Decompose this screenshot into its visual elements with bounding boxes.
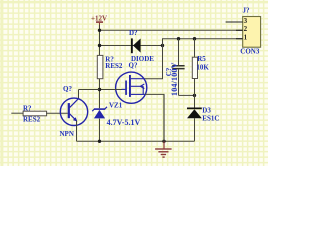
resistor R5: [192, 39, 209, 108]
capacitor C? 104/100V: [165, 39, 195, 96]
power port +12V: [91, 15, 107, 26]
svg-text:RES2: RES2: [105, 62, 123, 70]
svg-text:10K: 10K: [196, 64, 209, 72]
wire emitter riser: [76, 121, 78, 141]
wire gate node column: [99, 79, 101, 109]
svg-text:CON3: CON3: [240, 48, 260, 56]
MOSFET Q?: [116, 62, 147, 104]
wire drain horizontal: [143, 78, 163, 80]
svg-text:2: 2: [244, 25, 248, 33]
wire base input: [11, 112, 23, 114]
svg-text:3: 3: [244, 17, 248, 25]
svg-text:VZ1: VZ1: [109, 102, 123, 110]
svg-text:104/100V: 104/100V: [170, 62, 179, 96]
wire drain riser: [162, 39, 164, 79]
wire gate: [100, 89, 123, 91]
diode D3 ES1C: [187, 107, 219, 142]
diode D? DIODE: [129, 29, 154, 63]
node junction R5 top: [193, 37, 196, 40]
resistor R? RES2 (base): [23, 104, 47, 123]
svg-text:D?: D?: [129, 29, 138, 37]
resistor R? RES2 (gate pull-up): [97, 55, 123, 78]
node junction diode rail left: [98, 44, 101, 47]
wire base to transistor: [46, 112, 68, 114]
wire collector riser: [78, 90, 80, 99]
wire bottom rail: [77, 140, 195, 142]
node junction at +12V / top rail: [98, 29, 101, 32]
wire top rail (pin 2 net): [100, 29, 243, 31]
wire diode rail: [100, 45, 163, 47]
svg-text:J?: J?: [243, 7, 251, 15]
node junction ground/bottom rail: [162, 140, 165, 143]
svg-text:1: 1: [244, 34, 248, 42]
wire +12V column: [99, 25, 101, 56]
ground: [155, 141, 172, 157]
svg-text:D3: D3: [202, 107, 211, 115]
node junction zener/bottom rail: [98, 140, 101, 143]
connector J? CON3: [226, 7, 261, 56]
zener diode VZ1 4.7V-5.1V: [92, 102, 140, 128]
svg-text:Q?: Q?: [129, 62, 138, 70]
wire collector branch horizontal: [79, 89, 100, 91]
node junction cap top: [177, 37, 180, 40]
node junction diode rail right: [161, 44, 164, 47]
svg-text:R5: R5: [197, 55, 206, 63]
node junction gate: [98, 88, 101, 91]
svg-text:NPN: NPN: [60, 130, 74, 138]
wire zener to bottom rail: [99, 119, 101, 142]
wire source riser: [163, 94, 165, 141]
svg-text:ES1C: ES1C: [202, 114, 219, 122]
node junction cap bottom / R5 bottom: [193, 94, 196, 97]
svg-text:4.7V-5.1V: 4.7V-5.1V: [107, 118, 141, 127]
svg-text:RES2: RES2: [23, 115, 41, 123]
transistor Q? NPN: [60, 85, 88, 138]
svg-text:Q?: Q?: [63, 85, 72, 93]
wire middle rail (pin 1 net): [162, 38, 243, 40]
wire source horizontal: [145, 93, 165, 95]
